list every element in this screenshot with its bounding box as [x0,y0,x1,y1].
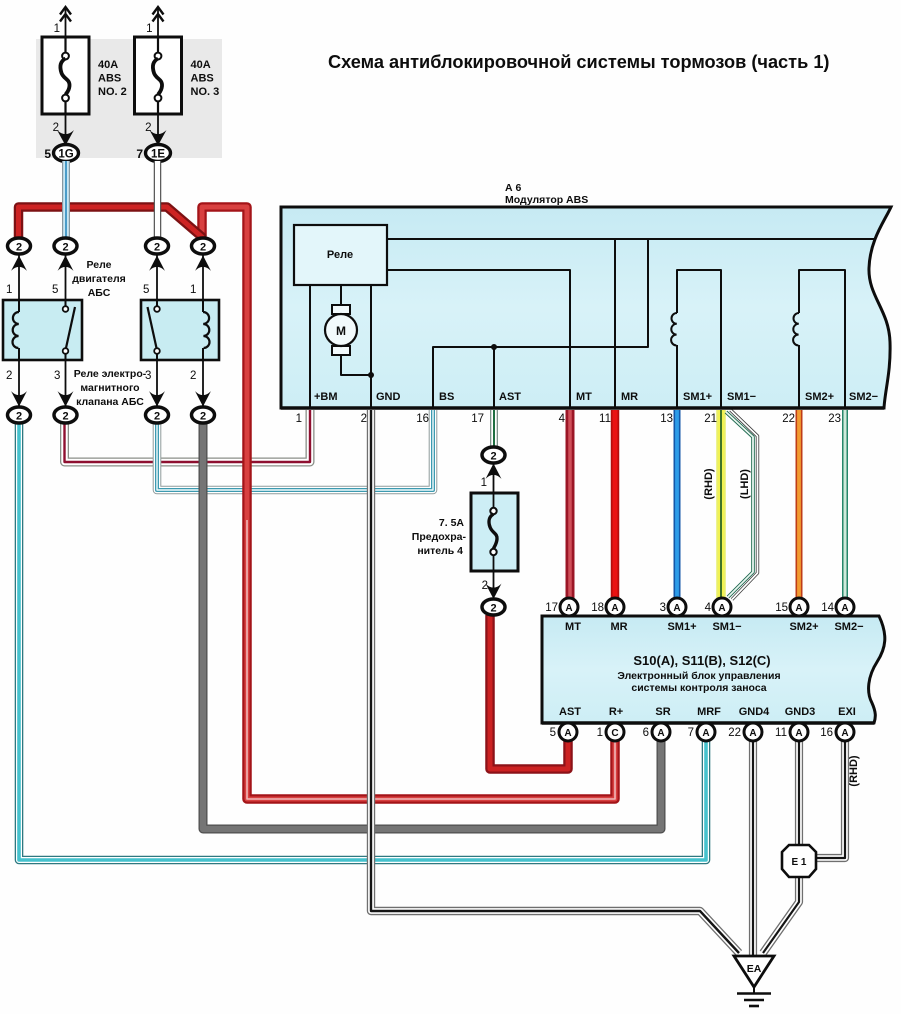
wire: white, modulator GND pin2 to ground EA [371,410,739,953]
wire relay to right edge [387,238,876,240]
wire relay to GND [370,285,372,408]
svg-text:1: 1 [190,284,196,296]
ECU bottom pin labels [559,706,856,718]
svg-text:ABS: ABS [191,73,214,85]
ECU pin 17 connector A (MT) [545,598,578,616]
connector 1E [136,145,170,162]
wire: dark red MT, modulator pin4 to ECU pin17 [566,410,575,598]
svg-text:A: A [673,603,680,614]
svg-text:SR: SR [655,706,670,718]
svg-text:Модулятор ABS: Модулятор ABS [505,194,588,206]
svg-text:E 1: E 1 [791,857,806,868]
SM2 solenoid loop [798,345,800,408]
wire MR branch [614,239,616,408]
svg-text:NO. 2: NO. 2 [98,86,127,98]
svg-text:MT: MT [576,391,592,403]
lead with down arrow below fuse4 [493,571,495,598]
wire: white 1E to relay2 pin5 [154,161,162,239]
svg-text:(LHD): (LHD) [739,469,751,499]
svg-text:2: 2 [154,411,160,423]
wire relay to MT [387,270,570,408]
svg-text:SM1−: SM1− [712,621,741,633]
svg-text:MR: MR [621,391,638,403]
svg-text:AST: AST [559,706,581,718]
wire: white EXI (RHD) to E1 [817,740,845,858]
wire: green (LHD) bypass [726,412,753,597]
svg-text:Электронный блок управления: Электронный блок управления [617,670,780,682]
lead with up arrow into connector [493,464,495,493]
fuse ABS NO.3 [135,7,220,147]
svg-text:17: 17 [545,602,558,614]
ECU pin 7 connector A (MRF) [688,723,715,741]
svg-text:M: M [336,324,346,338]
svg-text:A: A [565,603,572,614]
svg-text:3: 3 [54,370,60,382]
ECU pin 1 connector C (R+) [597,723,624,741]
svg-text:SM1−: SM1− [727,391,756,403]
svg-text:системы контроля заноса: системы контроля заноса [631,682,766,694]
ground EA [734,956,774,1006]
svg-text:SM2−: SM2− [849,391,878,403]
svg-text:11: 11 [599,413,611,425]
wire: white GND3 to E1 [795,740,803,846]
svg-text:А 6: А 6 [505,182,522,194]
svg-text:1: 1 [54,23,60,35]
connector 1G [44,145,78,162]
svg-text:двигателя: двигателя [72,273,126,285]
svg-text:1: 1 [6,284,12,296]
wire: white (LHD) bypass [731,410,758,600]
connector E1 [782,845,816,877]
connector 2 below relay2 pin3 [146,407,169,423]
svg-text:2: 2 [154,242,160,254]
svg-text:S10(А), S11(В), S12(С): S10(А), S11(В), S12(С) [633,653,770,668]
svg-text:4: 4 [705,602,712,614]
ECU pin 11 connector A (GND3) [775,723,808,741]
wire AST drop [493,347,495,408]
gray background panel behind fuses [36,39,222,158]
svg-text:C: C [611,728,618,739]
relay pin numbers bottom [6,370,196,382]
ECU pin 3 connector A (SM1+) [660,598,686,616]
leads with up arrows into top ellipses [19,255,203,300]
svg-text:BS: BS [439,391,454,403]
svg-text:клапана АБС: клапана АБС [76,396,144,408]
fuse 4 box [471,493,518,571]
svg-text:SM2−: SM2− [834,621,863,633]
svg-text:MR: MR [610,621,627,633]
wire: orange SM2+, modulator pin22 to ECU pin15 [796,410,803,598]
svg-text:Реле: Реле [327,249,353,261]
ECU pin 5 connector A (AST) [550,723,577,741]
svg-text:18: 18 [591,602,604,614]
wire: red bus from battery to relays and R+ [19,207,616,799]
wire: red thick, fuse4 output to AST pin5 [490,615,568,769]
svg-text:2: 2 [361,413,367,425]
svg-text:6: 6 [643,727,649,739]
ECU top pin labels [565,621,863,633]
svg-text:1E: 1E [151,149,165,161]
svg-text:2: 2 [62,411,68,423]
svg-text:7: 7 [136,147,143,161]
SM1 solenoid loop [676,345,678,408]
modulator pin numbers [296,413,841,425]
svg-text:Схема антиблокировочной систем: Схема антиблокировочной системы тормозов… [328,52,830,72]
svg-text:AST: AST [499,391,521,403]
svg-text:2: 2 [490,603,496,615]
connector 2 above relay1 pin1 [8,238,31,254]
svg-text:MT: MT [565,621,581,633]
coil of solenoid relay [202,300,204,312]
leads with down arrows into bottom ellipses [19,360,203,406]
fuse ABS NO.2 [42,7,127,147]
svg-text:A: A [841,603,848,614]
svg-text:21: 21 [704,413,717,425]
wire: light blue w/ blue stripe 1G to relay1 pin5 [62,161,70,239]
svg-text:40A: 40A [191,59,211,71]
svg-text:Реле: Реле [87,259,112,271]
svg-text:1: 1 [146,23,152,35]
internal wiring of modulator [310,239,876,408]
connector 2 above relay2 pin5 [146,238,169,254]
svg-text:16: 16 [416,413,429,425]
svg-text:15: 15 [775,602,788,614]
svg-text:(RHD): (RHD) [848,755,860,786]
wire: white E1 to ground EA [763,876,799,953]
svg-text:7. 5A: 7. 5A [439,517,465,529]
svg-text:A: A [795,603,802,614]
svg-text:EXI: EXI [838,706,856,718]
connector 2 above relay1 pin5 [54,238,77,254]
svg-text:АБС: АБС [88,287,111,299]
svg-text:4: 4 [559,413,566,425]
svg-text:16: 16 [820,727,833,739]
svg-text:23: 23 [828,413,841,425]
svg-text:GND4: GND4 [739,706,770,718]
connector 2 below relay1 pin2 [8,407,31,423]
svg-text:2: 2 [200,242,206,254]
ABS motor relay box [3,300,82,360]
wire: yellow-green SM1- (RHD), modulator pin21 to ECU pin4 [716,410,726,598]
coil of motor relay [18,300,20,312]
svg-text:GND3: GND3 [785,706,816,718]
svg-text:2: 2 [6,370,12,382]
svg-text:40A: 40A [98,59,118,71]
svg-text:5: 5 [550,727,556,739]
wire: gray, relay2 pin2 to SR pin6 [203,423,661,829]
switch contact of solenoid relay [156,300,158,306]
pump motor M [325,305,357,355]
svg-text:SM2+: SM2+ [805,391,834,403]
svg-text:22: 22 [782,413,795,425]
junction node AST/BS [491,344,497,350]
switch contact of motor relay [65,300,67,306]
wire to BS/AST [433,239,648,408]
connector 2 below relay2 pin2 [192,407,215,423]
skid control ECU box [542,616,885,723]
svg-text:Предохра-: Предохра- [412,531,467,543]
svg-text:MRF: MRF [697,706,721,718]
svg-text:A: A [718,603,725,614]
svg-text:17: 17 [471,413,484,425]
wire: light blue, relay1 pin2 to MRF pin7 [19,423,706,860]
ECU pin 14 connector A (SM2-) [821,598,854,616]
relay pin numbers top [6,284,196,296]
svg-text:A: A [795,728,802,739]
wire relay to motor [340,285,342,305]
svg-text:7: 7 [688,727,694,739]
svg-text:EA: EA [747,963,762,975]
svg-text:5: 5 [52,284,58,296]
svg-text:A: A [564,728,571,739]
svg-text:13: 13 [660,413,673,425]
ABS solenoid relay box [141,300,219,360]
connector 2 above fuse4 [482,447,505,463]
svg-text:магнитного: магнитного [80,382,139,394]
ECU pin 4 connector A (SM1-) [705,598,731,616]
svg-text:1: 1 [296,413,302,425]
svg-text:A: A [702,728,709,739]
svg-text:2: 2 [53,122,59,134]
svg-text:22: 22 [728,727,741,739]
wire: red MR, modulator pin11 to ECU pin18 [611,410,620,598]
solenoid coil SM1 [671,313,677,345]
svg-text:нитель 4: нитель 4 [417,545,463,557]
svg-text:1: 1 [481,477,487,489]
svg-text:2: 2 [16,242,22,254]
svg-text:A: A [657,728,664,739]
svg-text:2: 2 [145,122,151,134]
svg-text:A: A [749,728,756,739]
svg-text:2: 2 [190,370,196,382]
ECU pin 16 connector A (EXI) [820,723,854,741]
relay box inside modulator [294,225,387,285]
modulator pin labels [314,391,878,403]
svg-text:+BM: +BM [314,391,338,403]
svg-text:2: 2 [16,411,22,423]
ECU pin 15 connector A (SM2+) [775,598,808,616]
svg-text:2: 2 [490,451,496,463]
connector 2 below relay1 pin3 [54,407,77,423]
svg-text:A: A [611,603,618,614]
svg-text:SM2+: SM2+ [789,621,818,633]
ECU pin 18 connector A (MR) [591,598,624,616]
svg-text:1: 1 [597,727,603,739]
svg-text:SM1+: SM1+ [667,621,696,633]
wire: white with red stripe, relay1 pin3 to +BM pin1 [65,410,311,462]
wire relay to +BM [309,285,311,408]
wire: white GND4 to ground EA [749,740,757,956]
solenoid coil SM2 [793,313,799,345]
svg-text:NO. 3: NO. 3 [191,86,220,98]
svg-text:14: 14 [821,602,834,614]
svg-text:11: 11 [775,727,787,739]
wire: teal, relay2 pin3 to BS pin16 [157,410,433,490]
wire: blue SM1+, modulator pin13 to ECU pin3 [674,410,681,598]
svg-text:SM1+: SM1+ [683,391,712,403]
junction node motor/GND [368,372,374,378]
wire: white w/ green stripe, AST pin17 to fuse4 [490,410,498,447]
svg-text:3: 3 [660,602,666,614]
svg-text:2: 2 [62,242,68,254]
svg-text:GND: GND [376,391,401,403]
svg-text:Реле электро-: Реле электро- [74,368,147,380]
svg-text:ABS: ABS [98,73,121,85]
ABS modulator unit A6 [281,182,891,408]
svg-text:2: 2 [482,580,488,592]
svg-text:1G: 1G [58,149,73,161]
ECU pin 22 connector A (GND4) [728,723,762,741]
svg-text:2: 2 [200,411,206,423]
connector 2 above relay2 pin1 [192,238,215,254]
svg-text:(RHD): (RHD) [703,468,715,499]
wire motor to GND junction [341,355,371,375]
ECU pin 6 connector A (SR) [643,723,670,741]
svg-text:A: A [841,728,848,739]
svg-text:R+: R+ [609,706,623,718]
connector 2 below fuse4 [482,599,505,615]
svg-text:5: 5 [44,147,51,161]
svg-text:5: 5 [143,284,149,296]
wire: green SM2-, modulator pin23 to ECU pin14 [842,410,848,598]
